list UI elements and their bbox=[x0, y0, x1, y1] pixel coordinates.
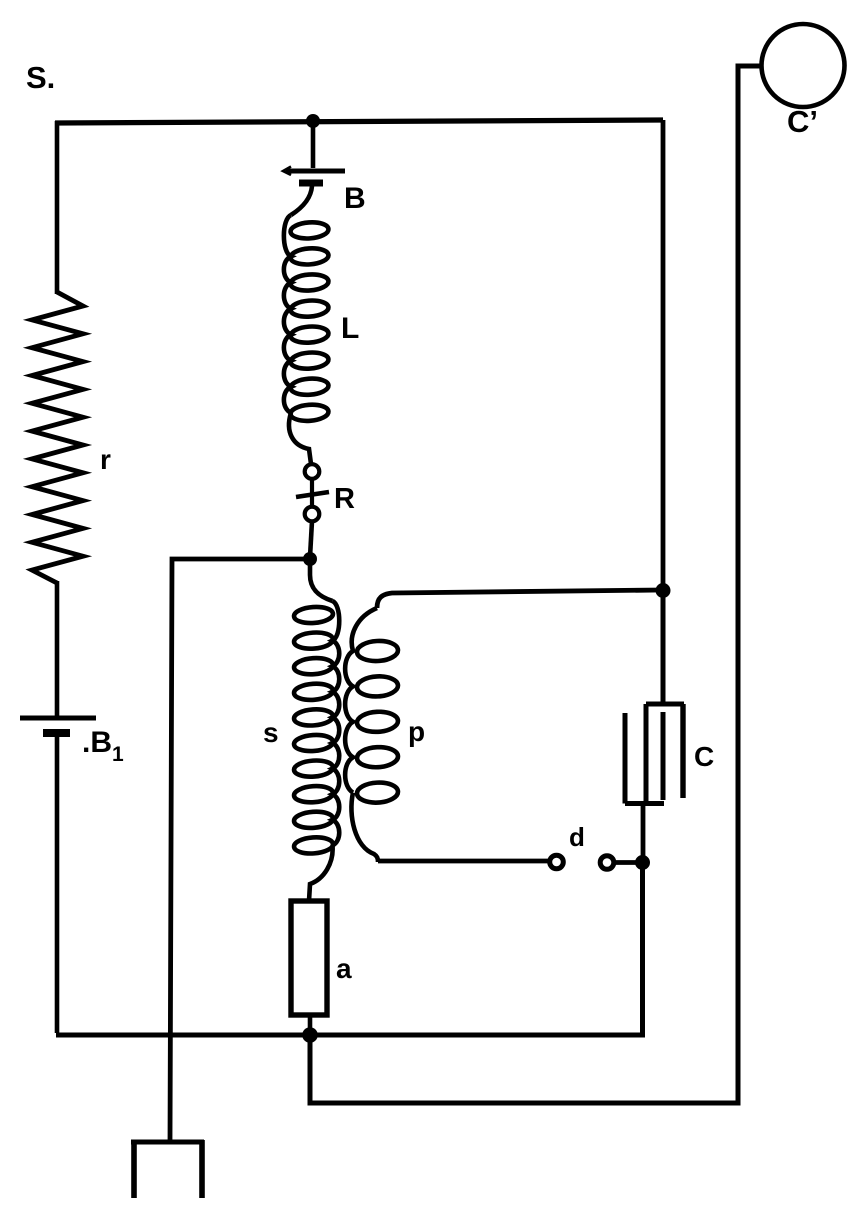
switch d left contact bbox=[550, 855, 564, 869]
capacitor C bottom edge bbox=[625, 713, 664, 804]
wire: p top to right bus bbox=[377, 590, 661, 608]
node: junction below R bbox=[303, 552, 317, 566]
svg-text:C: C bbox=[694, 741, 714, 772]
battery B short plate bbox=[299, 180, 323, 187]
lamp C prime circle bbox=[762, 24, 845, 107]
detector a box bbox=[291, 901, 327, 1015]
wire: box a to bottom bus bbox=[308, 1014, 313, 1035]
inductor p loops bbox=[357, 640, 399, 662]
capacitor C top edge bbox=[646, 702, 684, 707]
spark gap R crossbar bbox=[296, 492, 329, 497]
svg-text:C’: C’ bbox=[787, 104, 818, 139]
inductor s spine bbox=[333, 601, 340, 845]
svg-text:d: d bbox=[569, 822, 585, 852]
earth fork right prong bbox=[199, 1140, 205, 1198]
wire: right bus down to capacitor C bbox=[661, 590, 666, 704]
wire: bottom bus (left to switch junction riser) bbox=[56, 862, 643, 1035]
svg-text:p: p bbox=[408, 716, 425, 747]
capacitor C right plate bbox=[680, 704, 685, 798]
inductor s entry hook bbox=[310, 559, 333, 601]
inductor L spine bbox=[284, 215, 291, 413]
battery B arrow tick bbox=[283, 167, 291, 176]
resistor r bbox=[32, 292, 83, 583]
spark gap R stem bbox=[310, 479, 314, 507]
svg-text:L: L bbox=[341, 312, 359, 345]
earth fork bar bbox=[131, 1140, 204, 1145]
switch d right contact bbox=[600, 856, 614, 870]
inductor L loops bbox=[290, 221, 329, 240]
node: bottom bus junction bbox=[302, 1027, 318, 1043]
inductor s loops bbox=[293, 606, 333, 625]
spark gap R upper ball bbox=[305, 464, 320, 479]
svg-text:s: s bbox=[263, 717, 279, 748]
svg-text:S.: S. bbox=[26, 60, 55, 95]
svg-text:B: B bbox=[344, 182, 366, 215]
capacitor C left inner plate bbox=[644, 704, 649, 802]
inductor p exit hook bbox=[351, 793, 378, 862]
inductor s exit hook bbox=[309, 845, 333, 901]
inductor L entry hook bbox=[291, 186, 312, 215]
wire: p bottom to switch bbox=[378, 859, 548, 864]
svg-text:r: r bbox=[100, 444, 111, 475]
wire: switch to capacitor branch bbox=[614, 860, 642, 865]
wire: stub from top bus to battery B bbox=[311, 121, 316, 168]
node: right bus / p junction bbox=[656, 583, 671, 598]
spark gap R lower ball bbox=[305, 507, 320, 522]
wire: spark gap to node bbox=[310, 521, 312, 557]
wire: left vertical battery B1 to bottom bus bbox=[55, 735, 60, 1033]
node: switch/capacitor junction bbox=[635, 855, 650, 870]
wire: left vertical from top bus to resistor r bbox=[55, 121, 60, 294]
battery B1 long plate bbox=[20, 716, 96, 721]
inductor L exit hook bbox=[289, 413, 311, 464]
battery B long plate bbox=[286, 169, 345, 174]
wire: capacitor bottom to switch junction bbox=[641, 803, 646, 862]
wire: right vertical from top bus bbox=[661, 120, 666, 589]
wire: bottom junction to lower bus to C prime circle bbox=[310, 66, 762, 1103]
wire: junction left and down to earth fork bbox=[170, 559, 310, 1141]
node: top bus junction bbox=[306, 114, 320, 128]
capacitor C inner plate bbox=[661, 712, 666, 800]
battery B1 short plate bbox=[43, 729, 70, 737]
svg-text:a: a bbox=[336, 953, 352, 984]
inductor p spine bbox=[345, 608, 377, 793]
wire: top horizontal bus bbox=[55, 120, 663, 123]
wire: left vertical resistor to battery B1 bbox=[55, 581, 60, 716]
svg-text:R: R bbox=[334, 483, 355, 515]
earth fork left prong bbox=[131, 1142, 137, 1198]
